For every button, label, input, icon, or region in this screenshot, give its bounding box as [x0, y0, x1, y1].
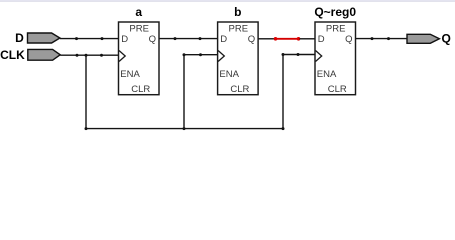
junction dot CLK riser tap — [85, 54, 88, 57]
svg-text:PRE: PRE — [229, 24, 249, 35]
flip-flop b — [218, 5, 259, 95]
svg-text:CLR: CLR — [230, 84, 249, 95]
wire: CLK riser down — [85, 55, 87, 128]
wire: reg.Q to output pad — [355, 38, 407, 40]
junction dot bus right corner — [282, 127, 285, 130]
svg-text:D: D — [220, 34, 227, 45]
red endpoint dot left — [274, 37, 278, 41]
svg-text:CLR: CLR — [131, 84, 150, 95]
flip-flop Q~reg0 — [314, 5, 356, 95]
wire: red segment to reg.D — [300, 38, 316, 40]
flip-flop Q~reg0 body — [315, 22, 356, 95]
svg-text:PRE: PRE — [129, 24, 149, 35]
input port D symbol — [28, 33, 60, 43]
svg-text:D: D — [318, 34, 325, 45]
wire: D pad to a.D — [60, 38, 119, 40]
clock triangle a — [119, 51, 125, 62]
wire: CLK pad to a.CLK — [60, 54, 119, 56]
junction dot b clock corner — [183, 53, 186, 56]
junction dot b clock mid — [199, 53, 202, 56]
wire: riser to Q~reg0 clock — [282, 55, 284, 129]
junction dot reg clock corner — [282, 53, 285, 56]
flip-flop a body — [119, 22, 160, 95]
svg-text:CLR: CLR — [328, 84, 347, 95]
svg-text:Q: Q — [442, 32, 451, 46]
wire: to b clock input — [184, 54, 218, 56]
junction dot D net 1 — [75, 37, 78, 40]
output port Q symbol — [407, 34, 439, 43]
wire: bottom CLK bus — [86, 128, 283, 130]
svg-text:Q: Q — [248, 34, 255, 45]
junction dot bus at b riser — [183, 127, 186, 130]
svg-text:D: D — [121, 34, 128, 45]
wire: riser to b clock — [183, 55, 185, 129]
junction dot ab net 2 — [199, 37, 202, 40]
junction dot reg clock mid — [297, 53, 300, 56]
svg-text:b: b — [234, 5, 241, 19]
svg-text:Q: Q — [345, 34, 352, 45]
svg-text:a: a — [135, 5, 142, 19]
svg-text:D: D — [15, 31, 24, 45]
flip-flop b body — [218, 22, 259, 95]
wire: to Q~reg0 clock input — [283, 54, 316, 56]
input port CLK symbol — [28, 49, 60, 60]
svg-text:ENA: ENA — [219, 69, 239, 80]
svg-text:Q: Q — [149, 34, 156, 45]
svg-text:ENA: ENA — [317, 69, 337, 80]
junction dot ab net 1 — [174, 37, 177, 40]
flip-flop a — [119, 5, 160, 95]
junction dot bus left corner — [85, 127, 88, 130]
clock triangle Q~reg0 — [316, 51, 322, 62]
svg-text:PRE: PRE — [326, 24, 346, 35]
wire: b.Q to red segment — [258, 38, 274, 40]
wire: a.Q to b.D — [159, 38, 218, 40]
junction dot out net 2 — [387, 37, 390, 40]
selected net segment red — [274, 38, 300, 40]
svg-text:CLK: CLK — [0, 48, 25, 62]
svg-text:Q~reg0: Q~reg0 — [314, 5, 356, 19]
clock triangle b — [218, 51, 224, 62]
junction dot out net 1 — [371, 37, 374, 40]
junction dot D net 2 — [101, 37, 104, 40]
junction dot CLK net 1 — [76, 54, 79, 57]
junction dot CLK net 2 — [100, 54, 103, 57]
svg-text:ENA: ENA — [120, 69, 140, 80]
red endpoint dot right — [297, 37, 301, 41]
